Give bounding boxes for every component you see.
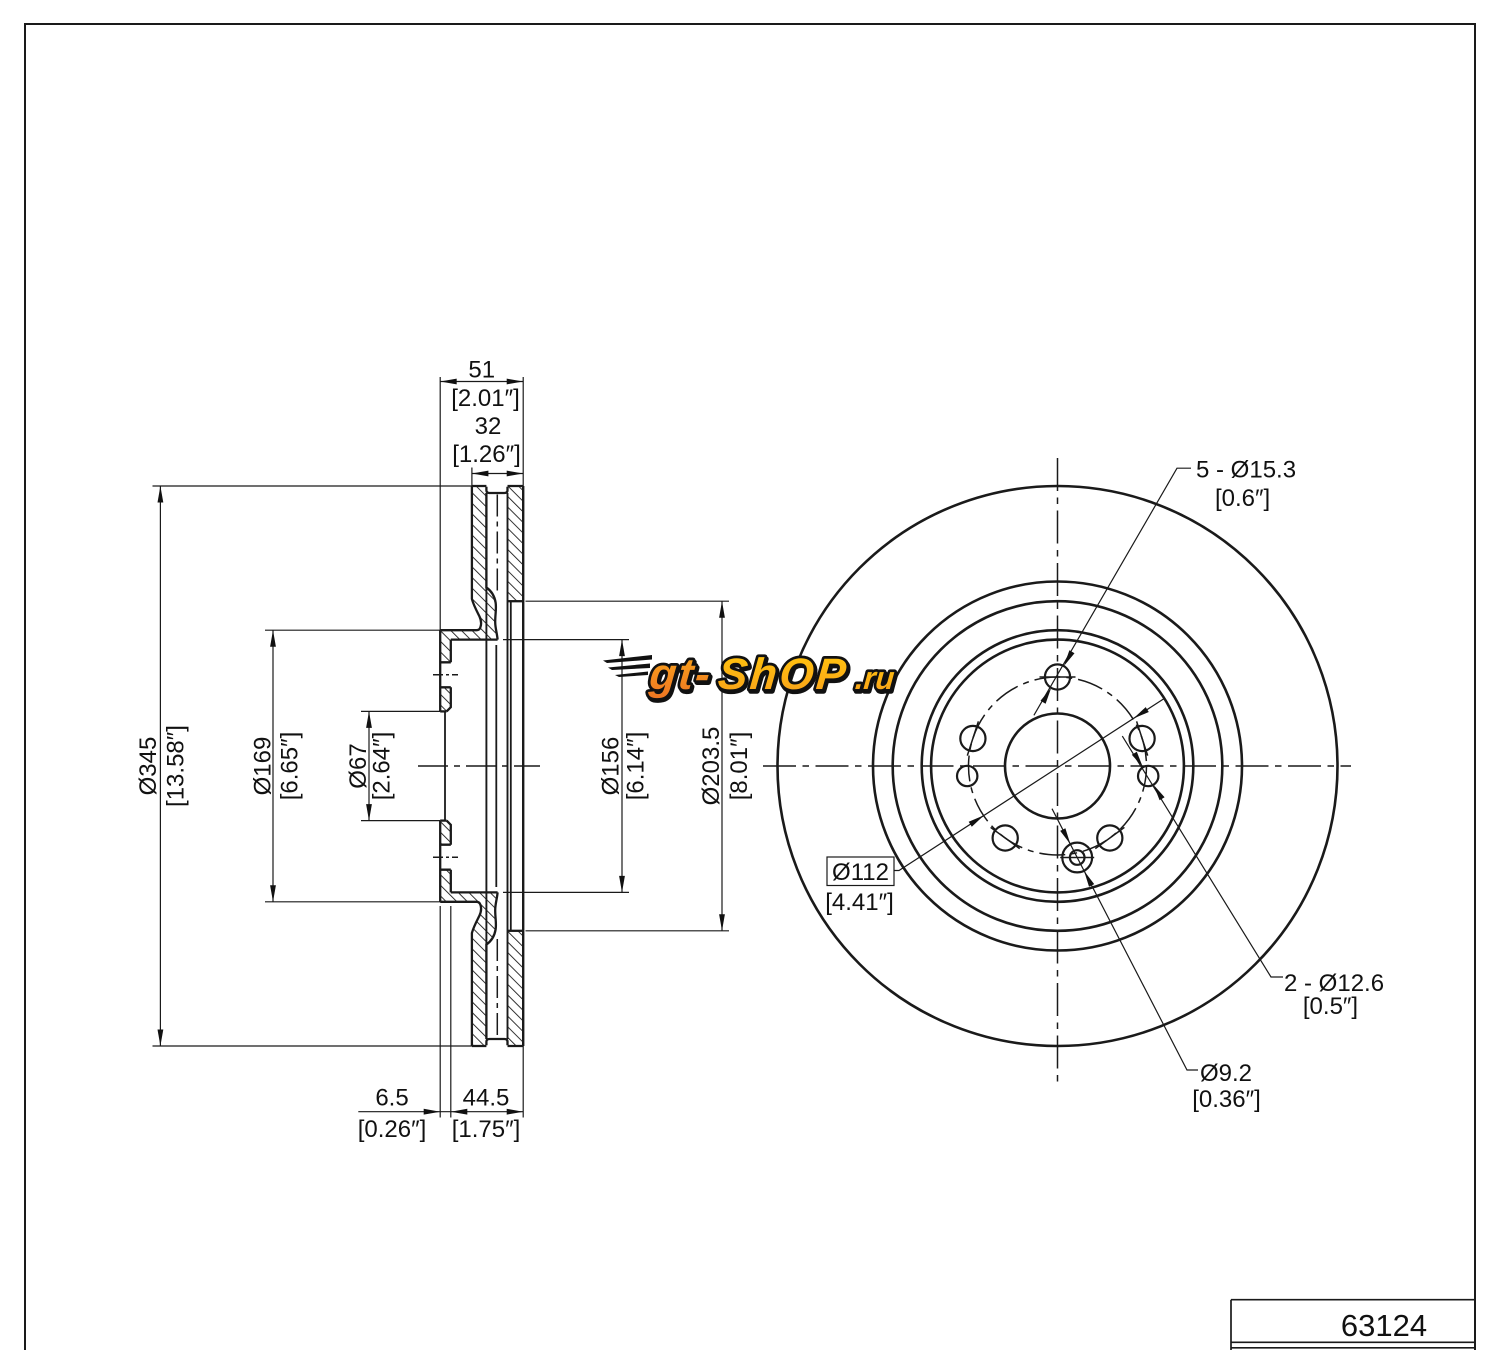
svg-text:[0.6″]: [0.6″]: [1215, 485, 1270, 512]
svg-text:32: 32: [475, 413, 502, 440]
svg-text:[1.26″]: [1.26″]: [452, 441, 521, 468]
svg-text:[0.26″]: [0.26″]: [358, 1116, 427, 1143]
svg-text:gt-: gt-: [647, 650, 714, 699]
svg-text:[6.65″]: [6.65″]: [277, 732, 304, 801]
svg-text:[4.41″]: [4.41″]: [825, 889, 894, 916]
svg-text:[0.5″]: [0.5″]: [1303, 993, 1358, 1020]
svg-text:Ø9.2: Ø9.2: [1200, 1060, 1252, 1087]
svg-text:Ø156: Ø156: [598, 737, 625, 796]
svg-text:ShOP: ShOP: [716, 650, 850, 699]
svg-text:Ø345: Ø345: [135, 737, 162, 796]
svg-text:[1.75″]: [1.75″]: [452, 1116, 521, 1143]
svg-text:[8.01″]: [8.01″]: [726, 732, 753, 801]
svg-text:[2.01″]: [2.01″]: [451, 385, 520, 412]
svg-text:6.5: 6.5: [375, 1084, 408, 1111]
svg-text:5 - Ø15.3: 5 - Ø15.3: [1196, 457, 1296, 484]
svg-text:Ø169: Ø169: [250, 737, 277, 796]
svg-text:[2.64″]: [2.64″]: [369, 732, 396, 801]
svg-text:51: 51: [468, 356, 495, 383]
svg-text:[0.36″]: [0.36″]: [1192, 1086, 1261, 1113]
svg-text:Ø203.5: Ø203.5: [698, 727, 725, 806]
svg-text:.ru: .ru: [854, 660, 897, 696]
svg-text:[13.58″]: [13.58″]: [163, 725, 190, 807]
svg-text:[6.14″]: [6.14″]: [623, 732, 650, 801]
svg-text:Ø112: Ø112: [832, 859, 889, 886]
svg-text:63124: 63124: [1341, 1308, 1427, 1343]
svg-text:44.5: 44.5: [463, 1084, 510, 1111]
